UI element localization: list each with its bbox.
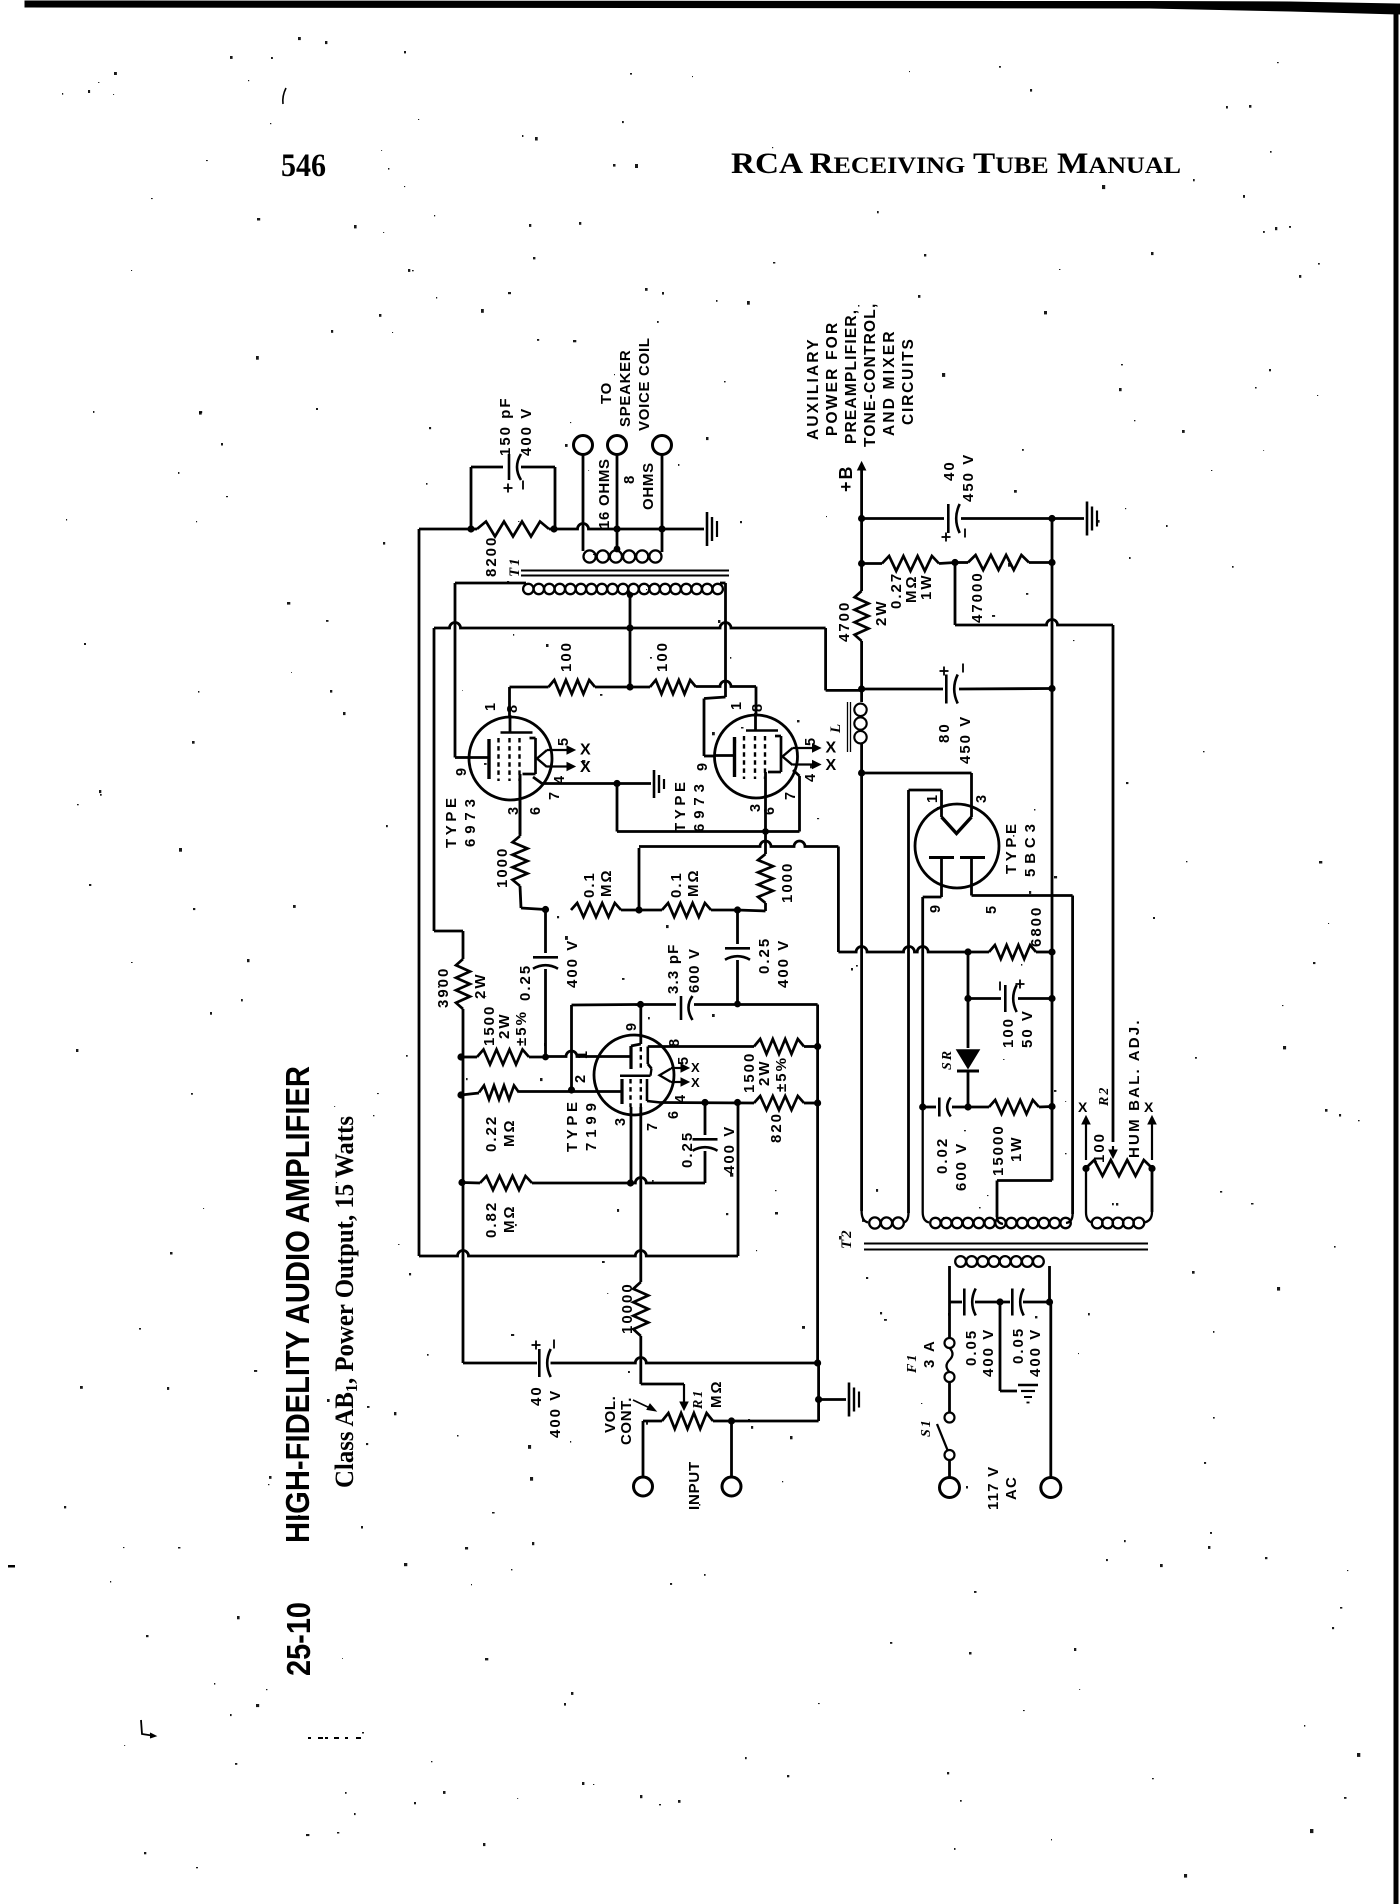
svg-text:OHMS: OHMS: [640, 462, 657, 510]
svg-text:AC: AC: [1003, 1476, 1020, 1500]
capacitor 0.25 400V left coupling: [542, 906, 549, 913]
svg-text:0.1: 0.1: [668, 871, 685, 898]
wire B+ rail upper: [860, 470, 863, 591]
wire switch to AC terminal: [948, 1460, 951, 1477]
scan mark top left: [283, 88, 286, 104]
svg-text:820: 820: [768, 1112, 785, 1143]
AC terminal left: [940, 1478, 960, 1498]
filter choke L: [860, 689, 863, 702]
wire pentode cathode pin7 stem: [639, 1107, 642, 1282]
tube V1 screen bar and pin 8 stub: [501, 731, 533, 734]
resistor 8200 feedback: [477, 522, 549, 537]
resistor 1500 2W 5pct tube V3 triode cathode: [457, 1053, 464, 1060]
wire hum pot feed x1113: [1112, 625, 1115, 1142]
svg-text:INPUT: INPUT: [686, 1461, 703, 1510]
scan corner mark bottom left: [141, 1720, 155, 1736]
transformer T1 secondary winding: [584, 550, 596, 562]
svg-text:7: 7: [547, 790, 563, 800]
capacitor 0.25 400V right coupling: [736, 910, 739, 944]
svg-text:R2: R2: [1097, 1086, 1112, 1107]
wire AC right leg: [1049, 1302, 1052, 1477]
tube 6973 V1 envelope: [469, 717, 552, 800]
svg-text:40: 40: [941, 460, 958, 481]
svg-text:±5%: ±5%: [513, 1010, 530, 1046]
svg-text:400 V: 400 V: [518, 407, 535, 456]
svg-text:TO: TO: [598, 382, 615, 404]
tube V2 plate: [733, 737, 736, 777]
wire line filter center to ground: [999, 1302, 1002, 1391]
tube V2 screen bar and pin 8 stub: [746, 729, 778, 732]
wire triode plate pin1 from coupling node: [546, 1051, 632, 1057]
wire 8 ohm terminal tap: [616, 455, 619, 551]
svg-text:400 V: 400 V: [980, 1328, 997, 1377]
svg-text:47000: 47000: [969, 571, 986, 623]
svg-text:1: 1: [925, 793, 941, 803]
tube V4 filament pin 9 lead: [940, 858, 943, 898]
wire common terminal: [661, 455, 664, 553]
wire feedback left horizontal: [419, 528, 471, 531]
tube V3 triode cathode: [646, 1047, 649, 1065]
svg-text:+B: +B: [836, 464, 856, 492]
tube V2 pin7 beam wire: [793, 770, 800, 776]
wire T1 primary left to tube1 plate pin 9: [455, 756, 470, 759]
svg-text:3: 3: [613, 1116, 629, 1126]
fuse F1 3A: [948, 1302, 951, 1338]
tube V2 heater pin 4 lead to X: [793, 763, 817, 765]
resistor 15000 1W: [968, 1106, 989, 1109]
input terminal hot: [634, 1477, 653, 1496]
wire screen bus right drop x825: [824, 628, 827, 690]
svg-text:2W: 2W: [873, 600, 890, 627]
svg-text:MΩ: MΩ: [598, 868, 615, 897]
svg-text:3.3 pF: 3.3 pF: [665, 943, 682, 994]
capacitor 150pF box left side: [470, 467, 473, 529]
svg-text:2: 2: [573, 1073, 589, 1083]
wire ground bus y529 with hop at 583: [554, 524, 704, 530]
tube V3 pentode cathode: [646, 1079, 649, 1101]
svg-text:7: 7: [783, 790, 799, 800]
tube V4 filament bars: [929, 856, 954, 859]
tube V1 plate pin 9 stub: [469, 756, 489, 759]
svg-text:X: X: [580, 742, 591, 759]
wire right node risers: [817, 1363, 820, 1421]
page top edge black bar: [25, 1, 1400, 14]
switch S1: [948, 1382, 951, 1412]
wire rail jog to T2 center tap: [1051, 1178, 1054, 1181]
capacitor 40uF 450V: [862, 517, 944, 520]
resistor 6800: [968, 951, 989, 954]
svg-text:5: 5: [803, 736, 819, 746]
selenium rectifier SR: [967, 952, 970, 1048]
transformer T2 primary: [948, 1266, 951, 1302]
transformer T1 core: [521, 570, 729, 572]
wire to chassis ground: [819, 1398, 846, 1401]
wire ground bus y1256 with hops: [419, 1251, 738, 1257]
svg-text:3 A: 3 A: [921, 1339, 938, 1368]
svg-text:SR: SR: [940, 1049, 955, 1070]
svg-text:400 V: 400 V: [1027, 1328, 1044, 1377]
tube V4 plate pin 3 lead: [970, 773, 973, 817]
svg-text:8200: 8200: [483, 536, 500, 577]
svg-text:6973: 6973: [691, 782, 708, 832]
wire 7199 plate node y1004: [572, 1003, 641, 1006]
svg-text:Class AB1, Power Output, 15 Wa: Class AB1, Power Output, 15 Watts: [330, 1116, 361, 1488]
svg-text:117 V: 117 V: [985, 1466, 1002, 1510]
svg-text:100: 100: [558, 641, 575, 672]
svg-text:400 V: 400 V: [564, 939, 581, 988]
svg-text:1W: 1W: [918, 574, 935, 601]
tube V1 grids: [497, 738, 499, 781]
svg-text:6: 6: [666, 1109, 682, 1119]
tube V3 heater pin 4 lead to X: [671, 1081, 685, 1083]
transformer T2 winding C heater: [1085, 1169, 1087, 1212]
ground input circuit: [848, 1383, 851, 1417]
input terminal return: [722, 1477, 741, 1496]
svg-text:TYPE: TYPE: [1003, 822, 1020, 874]
svg-text:5BC3: 5BC3: [1022, 822, 1039, 877]
wire pentode plate pin2: [519, 1090, 622, 1093]
transformer T1 primary winding: [523, 584, 533, 594]
svg-text:9: 9: [454, 766, 470, 776]
svg-text:600 V: 600 V: [953, 1142, 970, 1191]
svg-text:3: 3: [974, 793, 990, 803]
wire 4700 to choke junction: [860, 641, 863, 689]
wire bleed divider drop x955 and y625 run: [954, 563, 957, 626]
svg-text:T1: T1: [507, 556, 523, 577]
capacitor 150pF box right side: [554, 467, 557, 529]
tube V1 pin7 beam wire to ground: [533, 777, 542, 784]
speaker terminal common: [653, 436, 672, 455]
resistor 0.82 M: [458, 1179, 465, 1186]
svg-text:6800: 6800: [1028, 906, 1045, 947]
wire y1183 grid return: [631, 1178, 706, 1184]
svg-text:8: 8: [621, 474, 638, 484]
svg-text:10000: 10000: [619, 1282, 636, 1334]
tube V2 grids: [743, 736, 745, 779]
resistor 0.1 M tube V2 grid: [639, 909, 662, 912]
svg-text:X: X: [826, 757, 837, 774]
svg-text:450 V: 450 V: [960, 453, 977, 502]
tube V3 pentode plate: [620, 1079, 623, 1104]
svg-text:0.22: 0.22: [483, 1115, 500, 1152]
tube V3 triode plate pin 9 stub: [639, 1005, 642, 1045]
svg-text:5: 5: [676, 1055, 692, 1065]
capacitor 0.05 400V line filter 1: [950, 1301, 963, 1304]
svg-text:5: 5: [556, 736, 572, 746]
svg-text:80: 80: [936, 722, 953, 743]
ground filter cap: [1086, 502, 1089, 536]
wire jog to 3900: [434, 930, 463, 933]
svg-text:150 pF: 150 pF: [497, 396, 514, 456]
svg-text:8: 8: [667, 1037, 683, 1047]
resistor 10000 pentode cathode bias: [633, 1282, 648, 1336]
svg-text:AND MIXER: AND MIXER: [881, 329, 898, 436]
wire T1 center tap: [629, 592, 632, 687]
svg-text:X: X: [1078, 1099, 1088, 1115]
transformer T2 winding B rectifier filament: [922, 1107, 924, 1212]
svg-text:X: X: [580, 759, 591, 776]
wire x571 riser: [570, 1005, 573, 1090]
tube V1 heater filament: [537, 750, 547, 767]
svg-text:2W: 2W: [496, 1013, 513, 1040]
wire 100 to tube2 screen with hop at 725: [696, 681, 756, 687]
wire right rail x1052: [1051, 519, 1054, 1179]
ground speaker common: [706, 512, 709, 546]
wire grid V2 to bias rail: [638, 848, 641, 910]
tube V1 heater pin 5 lead to X: [547, 749, 571, 751]
B+ output arrow: [860, 468, 862, 475]
svg-text:6: 6: [528, 805, 544, 815]
wire bias rail y952 with hops: [838, 947, 968, 953]
resistor 1000 tube V2 cathode: [762, 828, 769, 835]
tube V3 heater pin 5 lead to X: [671, 1067, 685, 1069]
wire 10000 to volume control wiper: [639, 1336, 642, 1384]
svg-text:VOICE COIL: VOICE COIL: [636, 337, 653, 431]
svg-text:MΩ: MΩ: [501, 1118, 518, 1147]
wire 16 ohm terminal to coil: [582, 455, 585, 552]
capacitor 0.02 600V: [919, 1103, 926, 1110]
svg-text:6: 6: [762, 805, 778, 815]
tube V3 triode plate: [629, 1046, 632, 1069]
svg-text:4: 4: [803, 772, 819, 782]
resistor 1000 tube V1 cathode: [519, 774, 522, 836]
capacitor 150pF plates: [508, 454, 511, 480]
capacitor 40 400V cathode bypass: [463, 1362, 537, 1365]
svg-text:0.25: 0.25: [517, 964, 534, 1001]
wire 5V winding right leg x1072: [1071, 896, 1074, 1215]
wire y1363 to right with hop at 641: [551, 1358, 818, 1364]
tube V2 cathode bracket: [780, 736, 783, 772]
svg-text:1W: 1W: [1008, 1136, 1025, 1163]
svg-text:MΩ: MΩ: [685, 868, 702, 897]
page right edge black line: [1394, 4, 1399, 1904]
wire input return lead: [730, 1421, 733, 1477]
svg-text:5: 5: [984, 904, 1000, 914]
volume control wiper arrow: [683, 1384, 685, 1404]
resistor 1500 2W 5pct tube V3 pentode cathode: [753, 1045, 756, 1048]
svg-text:16 OHMS: 16 OHMS: [596, 458, 613, 529]
capacitor 0.25 400V pentode plate bypass: [704, 1103, 707, 1136]
svg-text:100: 100: [654, 641, 671, 672]
svg-text:25-10: 25-10: [280, 1602, 317, 1676]
tube V3 cathode pin 8 wire to bias resistor: [648, 1045, 754, 1048]
svg-text:6973: 6973: [462, 797, 479, 847]
svg-text:L: L: [828, 722, 844, 734]
svg-text:400 V: 400 V: [547, 1389, 564, 1438]
svg-text:TYPE: TYPE: [672, 780, 689, 832]
svg-text:0.05: 0.05: [963, 1329, 980, 1366]
capacitor 0.05 400V line filter 2: [1011, 1289, 1014, 1316]
svg-text:PREAMPLIFIER,: PREAMPLIFIER,: [843, 309, 860, 444]
capacitor 3.3pF 600V: [680, 996, 683, 1020]
resistor 820: [754, 1096, 804, 1110]
potentiometer R2 hum balance: [1086, 1160, 1152, 1176]
svg-text:HUM BAL. ADJ.: HUM BAL. ADJ.: [1126, 1018, 1143, 1158]
svg-text:0.25: 0.25: [679, 1131, 696, 1168]
AC terminal right: [1041, 1478, 1061, 1498]
tube V4 plate pin 1 lead: [940, 790, 943, 817]
tube V3 pentode top bar: [651, 1069, 652, 1076]
wire left bias chain x463: [462, 1057, 465, 1363]
ground tube V1 beam plates: [653, 770, 656, 798]
tube 6973 V2 envelope: [715, 715, 798, 798]
resistor 0.22 M: [457, 1091, 464, 1098]
svg-text:X: X: [691, 1075, 700, 1090]
svg-text:AUXILIARY: AUXILIARY: [805, 337, 822, 440]
wire T1 primary left end: [455, 582, 526, 585]
svg-text:X: X: [691, 1060, 700, 1075]
svg-text:F1: F1: [905, 1353, 920, 1374]
svg-text:100: 100: [1000, 1017, 1017, 1048]
wire input hot lead: [642, 1421, 645, 1477]
tube V2 heater pin 5 lead to X: [793, 747, 817, 749]
tube V4 TYPE 5BC3 envelope: [915, 804, 999, 888]
svg-text:X: X: [1144, 1099, 1154, 1115]
resistor 47000: [955, 561, 968, 564]
svg-text:CIRCUITS: CIRCUITS: [900, 337, 917, 425]
svg-text:0.82: 0.82: [483, 1201, 500, 1238]
svg-text:9: 9: [695, 761, 711, 771]
scan speckles: [481, 309, 484, 313]
svg-text:1: 1: [483, 701, 499, 711]
svg-text:VOL.: VOL.: [602, 1396, 619, 1433]
svg-text:600 V: 600 V: [686, 948, 703, 993]
svg-text:546: 546: [281, 148, 326, 184]
tube V2 cathode stem pins 3 6: [764, 772, 767, 832]
svg-text:15000: 15000: [990, 1124, 1007, 1176]
resistor 0.27M 1W: [862, 562, 882, 565]
svg-text:HIGH-FIDELITY AUDIO AMPLIFIER: HIGH-FIDELITY AUDIO AMPLIFIER: [279, 1066, 316, 1543]
speaker terminal 16 ohms: [574, 436, 593, 455]
wire feedback left vertical: [418, 529, 421, 1256]
svg-text:3900: 3900: [435, 967, 452, 1008]
wire T1 right jog to tube2 plate pin 9: [704, 697, 726, 699]
resistor 3900 2W: [462, 931, 465, 959]
svg-text:1: 1: [729, 700, 745, 710]
svg-text:MΩ: MΩ: [708, 1379, 725, 1408]
hum balance X arrows: [1085, 1122, 1087, 1160]
svg-text:RCA RECEIVING TUBE MANUAL: RCA RECEIVING TUBE MANUAL: [731, 147, 1181, 180]
svg-text:2W: 2W: [756, 1060, 773, 1087]
svg-text:0.1: 0.1: [581, 871, 598, 898]
svg-text:8: 8: [505, 703, 521, 713]
svg-text:4700: 4700: [836, 601, 853, 642]
svg-text:R1: R1: [691, 1389, 706, 1410]
wire T1 primary right end: [720, 582, 726, 585]
svg-text:X: X: [826, 740, 837, 757]
scan dashes bottom: [308, 1737, 311, 1739]
svg-text:8: 8: [750, 702, 766, 712]
wire to ground right: [1052, 517, 1084, 520]
wire screen bus y628 with hops at 455 and 725: [434, 623, 826, 629]
svg-text:POWER FOR: POWER FOR: [824, 321, 841, 436]
svg-text:400 V: 400 V: [775, 939, 792, 988]
tube V3 triode grid: [640, 1047, 642, 1070]
svg-text:7: 7: [645, 1121, 661, 1131]
tube V4 filament pin 5 lead: [970, 858, 973, 896]
potentiometer R1 volume control: [662, 1413, 713, 1429]
speaker terminal 8 ohms: [608, 436, 627, 455]
svg-text:400 V: 400 V: [721, 1125, 738, 1174]
svg-text:7199: 7199: [583, 1101, 600, 1151]
tube V1 cathode stem pins 3 6: [519, 774, 522, 834]
wire pentode g3 pin6 node y1102: [661, 1101, 755, 1104]
wire B+ rail to 5BC3 and T2: [860, 773, 863, 1211]
wire B+ to plate pin 3 of 5BC3: [862, 772, 972, 775]
svg-text:2W: 2W: [472, 973, 489, 1000]
svg-text:TYPE: TYPE: [443, 796, 460, 848]
transformer T2 core: [864, 1242, 1148, 1244]
wire screen bus left drop x434: [433, 628, 436, 931]
svg-text:0.25: 0.25: [756, 937, 773, 974]
wire 1004 node to right riser: [738, 1003, 818, 1006]
transformer T2 winding A: [862, 1211, 868, 1223]
resistor 4700 2W: [855, 591, 869, 641]
tube V2 plate pin 9 stub: [715, 754, 735, 757]
tube V4 plate: [942, 817, 972, 834]
svg-text:50 V: 50 V: [1019, 1009, 1036, 1048]
svg-text:9: 9: [928, 903, 944, 913]
svg-text:450 V: 450 V: [957, 715, 974, 764]
tube V3 TYPE 7199 envelope: [594, 1035, 674, 1115]
svg-text:SPEAKER: SPEAKER: [617, 350, 634, 427]
hum pot wiper arrow: [1112, 1146, 1114, 1152]
svg-text:1000: 1000: [494, 847, 511, 888]
tube V1 heater pin 4 lead to X: [547, 765, 571, 767]
tube V3 pentode grids: [629, 1079, 631, 1107]
svg-text:S1: S1: [919, 1418, 934, 1437]
wire from ground dot down to tube2 cathode rail: [616, 784, 619, 832]
svg-text:MΩ: MΩ: [501, 1204, 518, 1233]
svg-text:0.05: 0.05: [1010, 1327, 1027, 1364]
tube V1 cathode bracket: [534, 738, 537, 774]
svg-text:TONE-CONTROL,: TONE-CONTROL,: [862, 303, 879, 447]
svg-text:40: 40: [528, 1385, 545, 1406]
resistor 0.1 M tube V1 grid: [571, 903, 621, 917]
svg-text:TYPE: TYPE: [564, 1100, 581, 1152]
ground line filter: [1018, 1384, 1038, 1386]
capacitor 100uF 50V bias filter: [968, 997, 1001, 1000]
tube V2 heater filament: [783, 748, 793, 765]
svg-text:CONT.: CONT.: [618, 1397, 635, 1445]
capacitor 150pF box top side: [471, 466, 503, 469]
scan dash left edge: [8, 1565, 15, 1568]
svg-text:100: 100: [1091, 1132, 1108, 1163]
wire bus riser x738 to pin6 node: [737, 1103, 740, 1257]
svg-text:0.02: 0.02: [934, 1137, 951, 1174]
tube V1 plate: [487, 739, 490, 779]
wire winding A right leg to 5BC3 pin1: [907, 790, 910, 1213]
capacitor 80uF 450V: [862, 688, 943, 691]
tube V3 heater filament: [660, 1069, 672, 1083]
svg-text:±5%: ±5%: [773, 1056, 790, 1092]
resistor 100 tube1 screen: [508, 687, 511, 716]
resistor 100 tube2 screen: [630, 686, 650, 689]
wire pin3 triode grid stem: [630, 1107, 633, 1183]
svg-text:1000: 1000: [779, 862, 796, 903]
svg-text:9: 9: [624, 1021, 640, 1031]
